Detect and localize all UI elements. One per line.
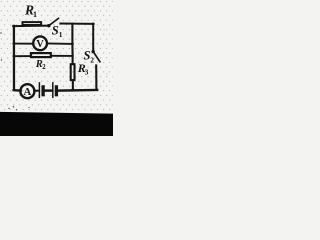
junction: R3 branch on bottom wire [71,88,74,91]
svg-text:2: 2 [42,64,46,71]
svg-text:S: S [52,24,59,38]
wire: bottom-right segment (battery to bottom-right corner) [58,89,97,92]
battery B1 (two cells) [39,83,56,97]
wire: right vertical lower (below S2 down to bottom-right corner) [95,65,97,90]
label R2 [35,59,47,71]
svg-text:V: V [36,39,44,50]
wire: top-right segment (after S1 to top-right corner) [60,23,93,25]
junction: voltmeter branch on inner vertical [71,43,74,46]
voltmeter V [33,36,47,50]
svg-text:2: 2 [90,55,94,64]
wire: top-left segment (corner to S1 contact) [13,25,48,28]
wire: R2 branch left [14,55,30,57]
wire: bottom-left segment (corner to ammeter) [14,89,21,92]
junction: R2 branch on left wire [13,55,16,58]
svg-text:A: A [23,86,31,98]
svg-text:1: 1 [33,10,37,19]
ammeter A [20,84,34,98]
wire: ammeter to battery [34,90,39,92]
resistor R2 [31,53,51,57]
switch S2 (contact dot + open blade) [92,50,100,62]
wire: inner vertical to R3 (R2 branch to R3 top) [72,56,74,63]
wire: right vertical upper (top-right corner to S2 contact) [92,24,94,51]
label R3 [77,61,89,76]
label R1 [24,2,37,18]
resistor R3 [71,64,75,80]
wire: inner vertical upper (top wire junction down to voltmeter branch) [71,24,73,44]
junction: voltmeter branch on left wire [13,42,16,45]
svg-text:3: 3 [85,68,89,76]
switch S1 (contact dot + open blade) [47,18,58,27]
wire: R3 bottom to bottom wire [72,81,74,90]
wire: voltmeter branch left [14,43,33,45]
svg-text:1: 1 [59,30,63,39]
wire: inner vertical middle (voltmeter branch to R2 branch) [71,44,73,56]
wire: R2 branch right [51,55,72,57]
resistor R1 [23,22,42,25]
label S1 [52,24,63,39]
label S2 [84,48,95,64]
wire: left vertical (top-left corner down to bottom-left corner) [13,26,15,90]
wire: voltmeter branch right [48,42,73,45]
